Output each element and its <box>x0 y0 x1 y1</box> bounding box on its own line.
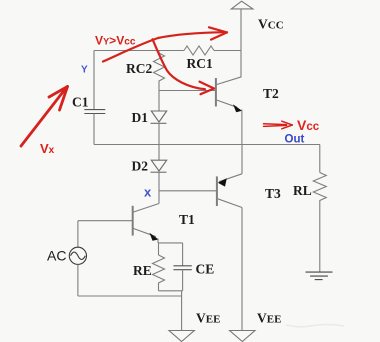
wire bottom rail <box>78 295 182 297</box>
power VEE left symbol <box>169 331 194 342</box>
wire D2 to T1 collector node <box>158 172 160 203</box>
wire Out to RL <box>319 145 321 173</box>
wire left vertical upper (Y to C1) <box>93 51 95 110</box>
wire top rail right <box>214 50 241 52</box>
wire AC bottom lead <box>77 264 79 296</box>
power VCC lead <box>240 9 242 77</box>
diode D1 <box>151 111 167 123</box>
svg-text:RL: RL <box>293 183 312 198</box>
svg-text:C1: C1 <box>72 95 89 110</box>
svg-text:D1: D1 <box>132 110 149 125</box>
wire CE bottom lead <box>182 270 184 291</box>
wire RE/CE bottom rail <box>159 290 183 292</box>
svg-text:T3: T3 <box>265 186 281 201</box>
svg-text:Y: Y <box>81 65 88 76</box>
capacitor C1 <box>84 110 105 114</box>
resistor RC2 <box>154 51 165 92</box>
wire AC top lead <box>77 221 79 248</box>
resistor RE <box>153 255 165 291</box>
annotation red curved arrow to VCC rail <box>103 27 227 61</box>
resistor RC1 <box>184 46 214 55</box>
wire mid rail (Out net) <box>94 144 320 146</box>
wire D1 to mid rail <box>158 123 160 144</box>
wire RL to ground <box>319 205 321 273</box>
power VEE right symbol <box>230 331 255 342</box>
transistor T1 <box>133 204 159 243</box>
annotation red arrow Vx <box>21 87 68 147</box>
svg-text:T1: T1 <box>179 212 195 227</box>
svg-text:x: x <box>144 185 152 200</box>
ground <box>306 272 333 280</box>
wire left vertical lower (C1 to mid rail) <box>93 114 95 145</box>
wire RE top lead <box>158 243 160 255</box>
svg-text:RC1: RC1 <box>187 56 213 71</box>
svg-text:VCC: VCC <box>258 17 284 32</box>
wire CE top lead <box>182 243 184 266</box>
wire X rail (X node to T3 base) <box>159 190 217 192</box>
svg-text:T2: T2 <box>263 86 279 101</box>
wire mid rail to D2 <box>158 145 160 161</box>
wire RC2 bottom to T2 base <box>159 90 216 92</box>
wire emitter rail <box>158 242 183 244</box>
faint smudge bottom right <box>286 325 344 327</box>
wire to VEE left <box>181 291 183 331</box>
wire top rail left (Y net) <box>94 50 184 52</box>
wire T1 base <box>78 220 133 222</box>
svg-text:VEE: VEE <box>196 311 220 326</box>
svg-text:CE: CE <box>196 262 215 277</box>
resistor RL <box>313 173 326 205</box>
transistor T3 <box>217 145 242 331</box>
source AC <box>69 247 86 264</box>
svg-text:RE: RE <box>133 263 152 278</box>
annotation red double arrow at Vcc <box>264 121 293 129</box>
power VCC symbol <box>231 1 253 9</box>
annotation red curved arrow to T2 base <box>153 39 215 94</box>
svg-text:VEE: VEE <box>257 311 281 326</box>
transistor T2 <box>216 77 242 145</box>
svg-text:RC2: RC2 <box>126 61 152 76</box>
svg-text:Out: Out <box>285 134 305 146</box>
capacitor CE <box>173 266 191 270</box>
svg-text:AC: AC <box>47 248 66 264</box>
diode D2 <box>151 160 167 172</box>
svg-text:D2: D2 <box>132 159 149 174</box>
wire D1 lead <box>158 91 160 111</box>
svg-text:VY>Vcc: VY>Vcc <box>95 34 136 48</box>
